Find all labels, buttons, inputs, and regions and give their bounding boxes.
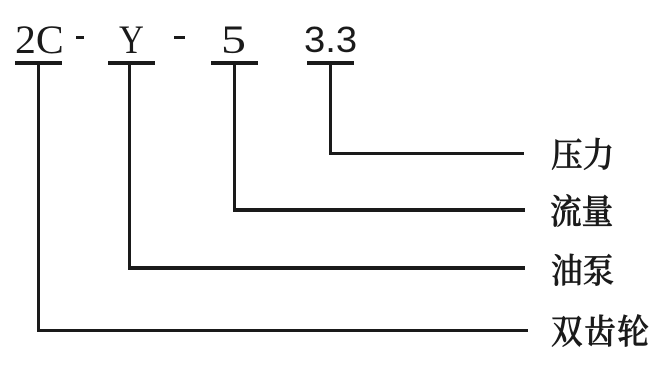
dash 2 xyxy=(174,36,185,39)
wire bar under Y xyxy=(108,61,155,65)
label yali 压力 xyxy=(551,135,620,175)
wire lead from 2C xyxy=(37,65,40,333)
label liuliang 流量 xyxy=(550,192,619,232)
wire bar under 3.3 xyxy=(307,61,354,65)
wire bar under 2C xyxy=(15,61,62,65)
wire leader to yali xyxy=(329,152,524,156)
wire leader to shuangchilun xyxy=(37,329,529,333)
wire bar under 5 xyxy=(211,61,258,65)
wire lead from 3.3 xyxy=(329,65,332,156)
code part 5 xyxy=(221,20,246,60)
dash 1 xyxy=(76,36,85,39)
code part 3.3 xyxy=(304,22,357,58)
label shuangchilun 双齿轮 xyxy=(551,312,654,352)
code part 2C xyxy=(15,20,64,60)
wire lead from Y xyxy=(128,65,131,270)
label youbeng 油泵 xyxy=(551,251,620,291)
wire leader to liuliang xyxy=(233,208,525,212)
code part Y xyxy=(119,20,144,60)
wire lead from 5 xyxy=(233,65,236,212)
wire leader to youbeng xyxy=(128,266,526,270)
